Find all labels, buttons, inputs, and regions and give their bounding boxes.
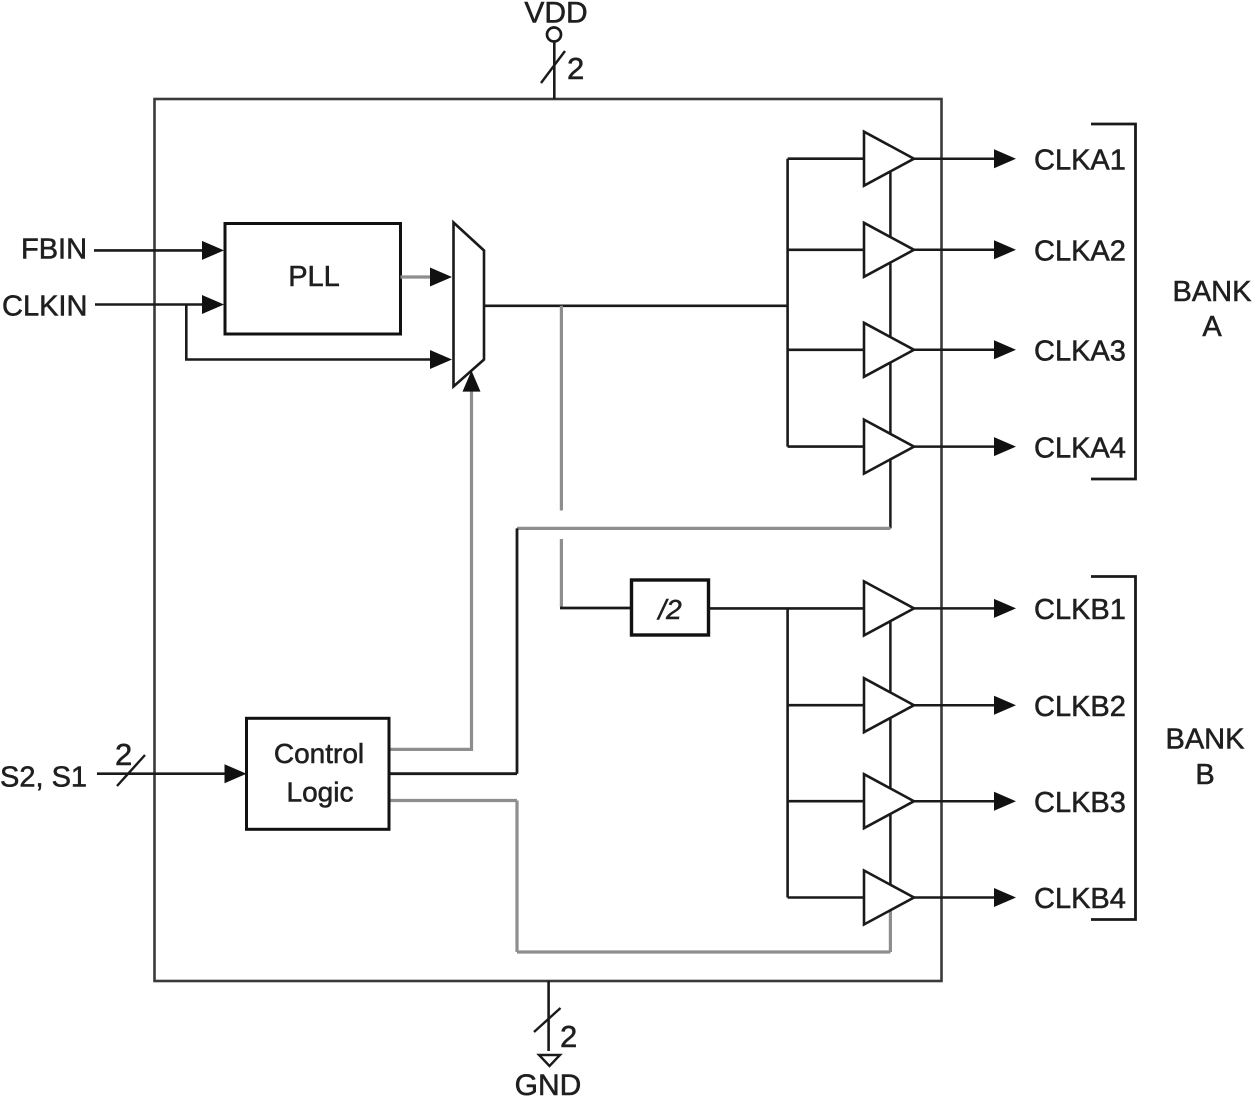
arrowhead CLKIN into PLL xyxy=(202,295,224,314)
VDD bus-width slash xyxy=(541,51,565,83)
svg-text:CLKA4: CLKA4 xyxy=(1034,432,1126,464)
wire bank B enable chain B1-B2 xyxy=(889,621,892,692)
wire CLKB3 output xyxy=(914,800,996,803)
wire mux output to bank A bus xyxy=(484,304,788,307)
bank B bracket xyxy=(1091,577,1136,920)
wire stub to buffer A2 xyxy=(788,249,864,252)
wire bank B enable chain B3-B4 xyxy=(889,814,892,885)
wire CLKB2 output xyxy=(914,704,996,707)
svg-text:CLKB4: CLKB4 xyxy=(1034,883,1126,915)
svg-text:Control: Control xyxy=(274,738,364,769)
wire stub to buffer B3 xyxy=(788,800,864,803)
wire CLKA1 output xyxy=(914,157,996,160)
wire FBIN input xyxy=(94,249,204,252)
wire bank B enable vertical drop xyxy=(515,801,518,953)
svg-text:2: 2 xyxy=(560,1019,577,1054)
mux U3 trapezoid xyxy=(454,223,485,387)
wire bank A input bus xyxy=(786,159,789,447)
wire mux select from control logic xyxy=(389,390,472,749)
svg-text:CLKB3: CLKB3 xyxy=(1034,787,1126,819)
buffer A2 xyxy=(864,223,914,277)
wire S2 S1 input xyxy=(97,772,226,775)
control logic block U5 xyxy=(247,718,390,829)
wire bank B enable riser to B4 xyxy=(889,910,892,952)
svg-text:CLKB2: CLKB2 xyxy=(1034,691,1126,723)
wire stub to buffer A3 xyxy=(788,348,864,351)
wire stub to buffer A4 xyxy=(788,445,864,448)
svg-text:CLKA3: CLKA3 xyxy=(1034,336,1126,368)
wire stub to buffer B4 xyxy=(788,896,864,899)
svg-text:B: B xyxy=(1195,759,1214,791)
wire divider input horizontal xyxy=(560,607,632,610)
divider /2 block U4 xyxy=(632,580,709,635)
buffer B3 xyxy=(864,774,914,828)
svg-text:CLKB1: CLKB1 xyxy=(1034,594,1126,626)
svg-text:FBIN: FBIN xyxy=(21,234,87,266)
wire PLL output to mux xyxy=(401,275,434,278)
svg-text:2: 2 xyxy=(115,737,132,772)
S2 S1 bus-width slash xyxy=(117,755,145,786)
arrowhead CLKB2 xyxy=(994,696,1016,715)
wire CLKB1 output xyxy=(914,607,996,610)
wire stub to buffer B2 xyxy=(788,704,864,707)
svg-text:GND: GND xyxy=(515,1069,582,1097)
wire CLKIN input xyxy=(95,303,204,306)
arrowhead CLKB4 xyxy=(994,888,1016,907)
arrowhead S2 S1 into control logic xyxy=(225,764,247,783)
wire CLKA4 output xyxy=(914,445,996,448)
arrowhead FBIN into PLL xyxy=(202,241,224,260)
arrowhead CLKA2 xyxy=(994,240,1016,259)
arrowhead PLL output into mux xyxy=(430,268,452,287)
wire control output 3 horizontal xyxy=(389,799,517,802)
buffer A1 xyxy=(864,132,914,186)
svg-text:CLKA2: CLKA2 xyxy=(1034,236,1126,268)
wire bank B input bus xyxy=(786,608,789,897)
GND arrow symbol xyxy=(539,1055,560,1066)
wire control output 2 vertical xyxy=(516,528,519,773)
svg-text:VDD: VDD xyxy=(524,0,587,30)
svg-text:Logic: Logic xyxy=(287,777,354,808)
arrowhead CLKA4 xyxy=(994,437,1016,456)
wire CLKB4 output xyxy=(914,896,996,899)
svg-text:S2, S1: S2, S1 xyxy=(0,762,87,794)
PLL block U2 xyxy=(225,224,401,335)
arrowhead CLKA1 xyxy=(994,149,1016,168)
svg-text:BANK: BANK xyxy=(1166,724,1246,756)
wire CLKA2 output xyxy=(914,249,996,252)
wire bank A enable chain A1-A2 xyxy=(889,171,892,237)
wire /2 output to buffer B1 xyxy=(709,607,865,610)
svg-text:2: 2 xyxy=(567,51,584,86)
buffer A3 xyxy=(864,323,914,377)
arrowhead mux select up xyxy=(463,371,481,392)
VDD terminal circle xyxy=(547,28,561,42)
wire bank A enable horizontal xyxy=(517,527,890,530)
arrowhead CLKB3 xyxy=(994,792,1016,811)
svg-text:CLKA1: CLKA1 xyxy=(1034,144,1126,176)
arrowhead CLKB1 xyxy=(994,599,1016,618)
arrowhead CLKIN bypass into mux xyxy=(430,350,452,369)
svg-text:PLL: PLL xyxy=(288,261,340,293)
wire bank A enable chain A3-A4 xyxy=(889,363,892,434)
chip body U1 outer box xyxy=(155,99,942,981)
GND bus-width slash xyxy=(534,1008,561,1032)
arrowhead CLKA3 xyxy=(994,340,1016,359)
buffer A4 xyxy=(864,420,914,474)
svg-text:A: A xyxy=(1202,311,1222,343)
wire bank B enable chain B2-B3 xyxy=(889,718,892,789)
buffer B2 xyxy=(864,678,914,732)
wire CLKA3 output xyxy=(914,349,996,352)
wire bank B enable bottom horizontal xyxy=(517,950,890,953)
svg-text:CLKIN: CLKIN xyxy=(2,291,87,323)
wire bank A enable chain A2-A3 xyxy=(889,263,892,338)
buffer B1 xyxy=(864,581,914,635)
wire divider feed upper segment xyxy=(560,306,563,511)
svg-text:/2: /2 xyxy=(656,594,682,625)
wire VDD stem xyxy=(553,41,556,99)
bank A bracket xyxy=(1091,124,1136,479)
wire GND stem xyxy=(547,981,550,1051)
wire bank A enable drop xyxy=(889,459,892,528)
svg-text:BANK: BANK xyxy=(1173,276,1253,308)
wire stub to buffer A1 xyxy=(788,157,864,160)
buffer B4 xyxy=(864,871,914,925)
wire control output 2 horizontal xyxy=(389,772,517,775)
wire divider feed lower segment xyxy=(560,539,563,607)
wire CLKIN bypass branch xyxy=(186,305,432,360)
